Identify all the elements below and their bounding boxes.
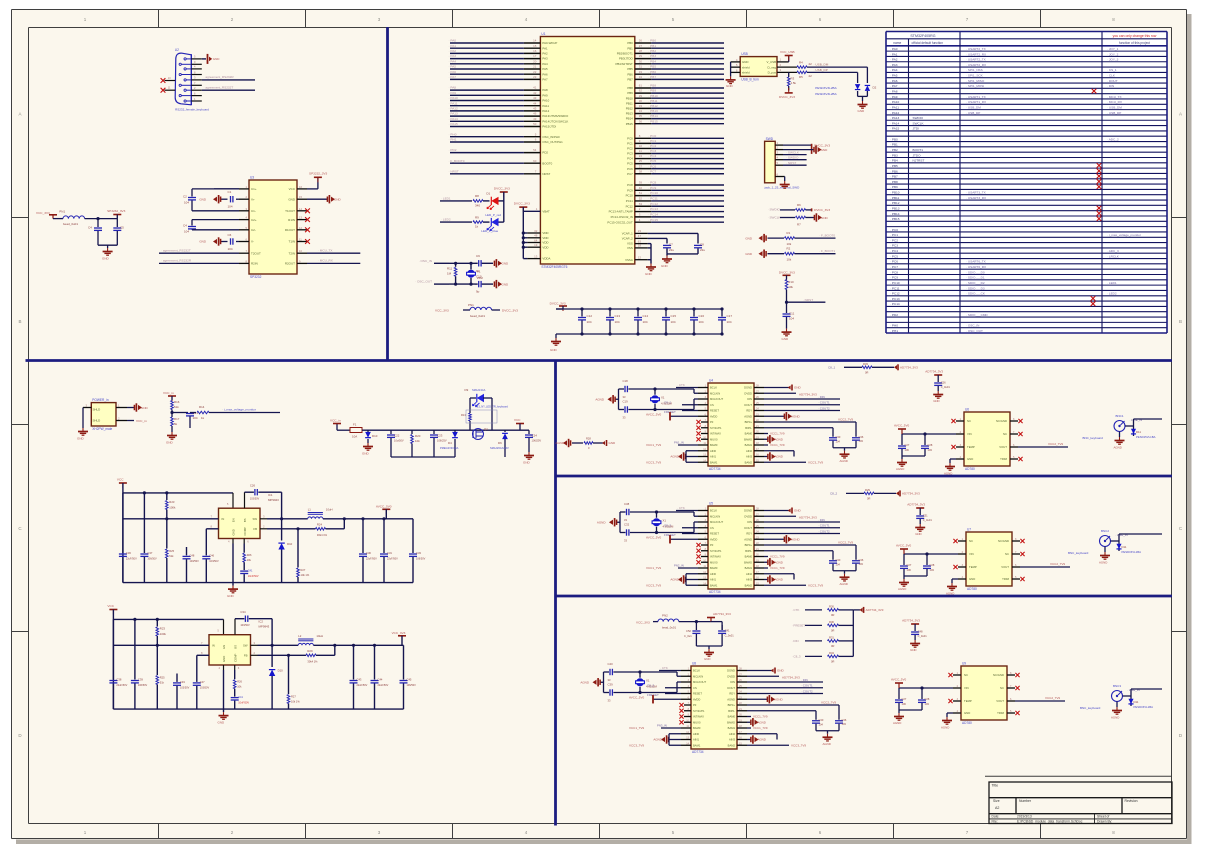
- svg-text:DVDD: DVDD: [744, 514, 752, 518]
- svg-text:46: 46: [533, 112, 537, 116]
- svg-text:· PA4: · PA4: [449, 59, 457, 63]
- svg-text:BAMG: BAMG: [744, 560, 752, 564]
- svg-text:U5: U5: [709, 502, 713, 506]
- svg-text:340: 340: [475, 204, 480, 208]
- svg-text:10k: 10k: [788, 285, 793, 289]
- svg-text:U4: U4: [709, 379, 713, 383]
- svg-text:C_0u01: C_0u01: [918, 634, 928, 638]
- svg-text:AVDD: AVDD: [710, 537, 717, 541]
- svg-text:· PA0: · PA0: [449, 39, 457, 43]
- svg-text:11: 11: [639, 149, 642, 153]
- svg-text:SMAJ13CA: SMAJ13CA: [472, 388, 486, 392]
- svg-text:0R: 0R: [831, 644, 834, 648]
- svg-text:· DIN: · DIN: [818, 395, 825, 399]
- svg-text:R1IN: R1IN: [288, 218, 295, 222]
- svg-text:26: 26: [639, 39, 643, 43]
- svg-text:1.5k: 1.5k: [791, 81, 797, 85]
- svg-text:· PC3: · PC3: [890, 244, 898, 248]
- svg-text:INT/MAX: INT/MAX: [693, 715, 704, 719]
- svg-text:10k 1%: 10k 1%: [291, 700, 300, 704]
- svg-text:AGND: AGND: [653, 738, 663, 742]
- svg-text:15: 15: [533, 44, 537, 48]
- svg-text:U9: U9: [962, 662, 966, 666]
- svg-text:C11: C11: [789, 311, 795, 315]
- svg-text:· USART2_TX: · USART2_TX: [966, 47, 986, 51]
- svg-text:AD7734_3V3: AD7734_3V3: [902, 619, 920, 623]
- svg-text:C15: C15: [671, 314, 677, 318]
- svg-text:D6: D6: [498, 441, 502, 445]
- svg-text:AGND: AGND: [580, 680, 590, 684]
- svg-text:SW: SW: [252, 517, 257, 521]
- svg-text:12: 12: [299, 226, 302, 230]
- svg-text:PC2: PC2: [627, 147, 633, 151]
- svg-text:16: 16: [533, 49, 537, 53]
- svg-text:· PD2: · PD2: [890, 313, 898, 317]
- svg-text:CS: CS: [710, 403, 714, 407]
- svg-text:16: 16: [299, 185, 302, 189]
- svg-text:DOUT: DOUT: [727, 686, 735, 690]
- svg-text:C36: C36: [126, 551, 131, 555]
- svg-text:C28: C28: [925, 697, 930, 701]
- svg-text:PB12: PB12: [626, 107, 633, 111]
- svg-text:· PB5: · PB5: [648, 65, 656, 69]
- svg-text:· LED1: · LED1: [1107, 281, 1117, 285]
- svg-text:GND: GND: [232, 529, 236, 535]
- svg-text:BIP0-: BIP0-: [745, 549, 752, 553]
- svg-text:C8: C8: [700, 242, 704, 246]
- svg-text:PN1_IN: PN1_IN: [674, 441, 684, 445]
- svg-text:MCLKIN: MCLKIN: [693, 674, 703, 678]
- svg-text:PD2: PD2: [542, 151, 548, 155]
- svg-text:VCC1_7V9: VCC1_7V9: [770, 443, 785, 447]
- svg-text:GND: GND: [821, 148, 829, 152]
- svg-text:X1: X1: [663, 518, 667, 522]
- svg-text:AGND: AGND: [840, 459, 848, 463]
- svg-text:· SPI1_SCK: · SPI1_SCK: [966, 74, 984, 78]
- svg-text:C14: C14: [643, 314, 649, 318]
- svg-text:· CTK: · CTK: [677, 383, 685, 387]
- svg-text:15: 15: [299, 195, 302, 199]
- svg-text:PN2: PN2: [662, 614, 668, 618]
- svg-text:C36: C36: [859, 435, 864, 439]
- svg-text:R3: R3: [791, 76, 795, 80]
- svg-text:· PB6: · PB6: [890, 169, 898, 173]
- svg-text:AIN2: AIN2: [729, 732, 735, 736]
- svg-text:· PA7: · PA7: [449, 75, 457, 79]
- svg-text:R9: R9: [475, 215, 479, 219]
- svg-text:· USART3_RX: · USART3_RX: [966, 196, 986, 200]
- svg-text:AGND: AGND: [555, 441, 565, 445]
- svg-text:AGND: AGND: [670, 578, 680, 582]
- svg-text:· PC4: · PC4: [890, 249, 898, 253]
- svg-text:NC/GND: NC/GND: [996, 419, 1007, 423]
- svg-text:RDY: RDY: [746, 409, 752, 413]
- svg-text:R27: R27: [291, 695, 296, 699]
- svg-text:· MCU_RX: · MCU_RX: [1107, 100, 1122, 104]
- svg-text:104: 104: [615, 320, 620, 324]
- svg-text:STM32F405RG: STM32F405RG: [910, 34, 935, 38]
- svg-text:21: 21: [533, 65, 537, 69]
- svg-text:VCC1_7V9: VCC1_7V9: [753, 726, 768, 730]
- svg-text:· PC5: · PC5: [648, 159, 656, 163]
- svg-text:VCC1_7V9: VCC1_7V9: [629, 726, 644, 730]
- svg-text:R16: R16: [174, 400, 180, 404]
- svg-text:AD7734: AD7734: [709, 467, 721, 471]
- svg-text:C31: C31: [387, 551, 392, 555]
- svg-text:30: 30: [639, 59, 643, 63]
- svg-text:106/25V: 106/25V: [437, 439, 447, 443]
- svg-text:· PC13: · PC13: [648, 207, 658, 211]
- svg-text:PC15-OSC32_OUT: PC15-OSC32_OUT: [607, 220, 633, 224]
- svg-text:JTDO: JTDO: [913, 153, 922, 157]
- svg-text:· SDIO___D2: · SDIO___D2: [966, 281, 985, 285]
- svg-text:· COUT2: · COUT2: [801, 689, 813, 693]
- svg-text:NC/GND: NC/GND: [998, 539, 1009, 543]
- svg-text:R11: R11: [447, 266, 452, 270]
- svg-text:BAM0: BAM0: [710, 566, 718, 570]
- svg-text:VCC3_7V9: VCC3_7V9: [646, 460, 661, 464]
- svg-text:AD7734_3V3: AD7734_3V3: [900, 366, 918, 370]
- svg-text:· PC8: · PC8: [648, 181, 656, 185]
- svg-text:AGND: AGND: [898, 587, 906, 591]
- svg-text:· PB5: · PB5: [890, 164, 898, 168]
- svg-text:AD7734: AD7734: [692, 750, 704, 754]
- svg-text:· PA11: · PA11: [449, 101, 458, 105]
- svg-text:AGND: AGND: [840, 582, 848, 586]
- svg-text:U7: U7: [967, 528, 971, 532]
- svg-text:0R: 0R: [831, 660, 834, 664]
- svg-text:INT/MAX: INT/MAX: [710, 555, 721, 559]
- svg-text:· PA2: · PA2: [449, 49, 457, 53]
- svg-text:PA13/JTMS/SWDIO: PA13/JTMS/SWDIO: [542, 114, 569, 118]
- svg-text:19: 19: [534, 243, 538, 247]
- svg-text:AIN1: AIN1: [710, 578, 716, 582]
- svg-text:R24: R24: [317, 522, 323, 526]
- svg-text:9p: 9p: [476, 269, 480, 273]
- svg-text:RDY: RDY: [746, 532, 752, 536]
- svg-text:D_pos: D_pos: [768, 71, 777, 75]
- svg-text:C48: C48: [190, 553, 195, 557]
- svg-text:C2: C2: [183, 195, 187, 199]
- svg-text:25: 25: [639, 159, 643, 163]
- svg-text:104: 104: [587, 320, 592, 324]
- svg-text:· C8_3: · C8_3: [792, 655, 801, 659]
- svg-text:C23: C23: [437, 434, 443, 438]
- svg-text:61: 61: [639, 84, 643, 88]
- svg-text:0R: 0R: [831, 629, 834, 633]
- svg-text:106/50V: 106/50V: [147, 558, 157, 561]
- svg-text:104: 104: [228, 205, 233, 209]
- svg-text:· PC3: · PC3: [648, 149, 656, 153]
- svg-text:· PA6: · PA6: [449, 70, 457, 74]
- svg-text:GND: GND: [502, 262, 510, 266]
- svg-text:104: 104: [184, 230, 189, 234]
- svg-text:DOUT: DOUT: [744, 526, 752, 530]
- svg-text:C22: C22: [394, 434, 400, 438]
- svg-text:DVCC_3V3: DVCC_3V3: [779, 270, 795, 274]
- svg-text:C28: C28: [930, 563, 935, 567]
- svg-text:MCLKOUT: MCLKOUT: [710, 397, 723, 401]
- svg-text:· PB14: · PB14: [648, 114, 658, 118]
- svg-text:C39: C39: [608, 683, 614, 687]
- svg-text:AD780: AD780: [965, 467, 975, 471]
- svg-text:44: 44: [533, 101, 537, 105]
- svg-text:· JOY_2: · JOY_2: [1107, 52, 1119, 56]
- svg-text:C24: C24: [532, 434, 538, 438]
- svg-text:· CTK: · CTK: [677, 506, 685, 510]
- svg-text:AVCC_5V0: AVCC_5V0: [629, 695, 644, 699]
- svg-text:VCC_in: VCC_in: [136, 419, 147, 423]
- svg-text:18: 18: [638, 244, 642, 248]
- svg-text:35: 35: [639, 114, 643, 118]
- svg-text:· PC9: · PC9: [648, 186, 656, 190]
- svg-text:· i_max_voltage_monitor: · i_max_voltage_monitor: [1107, 233, 1141, 237]
- svg-text:· COUT1: · COUT1: [818, 401, 830, 405]
- svg-text:COMP: COMP: [234, 653, 238, 662]
- svg-text:R29: R29: [307, 649, 313, 653]
- svg-text:U2: U2: [175, 48, 179, 52]
- svg-text:BNC_keyboard: BNC_keyboard: [1080, 706, 1101, 710]
- svg-text:BIP0-: BIP0-: [728, 709, 735, 713]
- svg-text:RS232_female_keyboard: RS232_female_keyboard: [175, 107, 209, 111]
- svg-text:VCC: VCC: [107, 604, 114, 608]
- svg-text:· PB3: · PB3: [890, 153, 898, 157]
- svg-text:· DIN: · DIN: [1107, 84, 1114, 88]
- svg-text:51k: 51k: [169, 554, 174, 558]
- svg-text:4.9152M: 4.9152M: [663, 524, 675, 528]
- svg-text:IC2: IC2: [259, 620, 264, 624]
- svg-text:C46: C46: [209, 553, 214, 557]
- svg-text:· USB_DP: · USB_DP: [814, 68, 828, 72]
- svg-text:MCLKIN: MCLKIN: [710, 514, 720, 518]
- svg-text:C6: C6: [228, 233, 232, 237]
- svg-text:PN2_IN: PN2_IN: [674, 564, 684, 568]
- svg-text:· PB10: · PB10: [648, 94, 658, 98]
- svg-text:104: 104: [836, 562, 841, 566]
- svg-text:22: 22: [809, 62, 813, 66]
- svg-text:VDDA: VDDA: [542, 257, 550, 261]
- svg-text:BAMG: BAMG: [727, 720, 735, 724]
- svg-text:GND: GND: [794, 509, 802, 513]
- svg-text:· PA3: · PA3: [449, 54, 457, 58]
- svg-text:C52: C52: [686, 629, 691, 633]
- svg-text:17: 17: [533, 54, 537, 58]
- svg-text:GND: GND: [915, 532, 921, 536]
- svg-text:C5: C5: [120, 226, 124, 230]
- svg-text:22uF/50V: 22uF/50V: [378, 684, 389, 687]
- svg-text:C44: C44: [378, 678, 383, 682]
- svg-text:AIN2: AIN2: [746, 449, 752, 453]
- svg-text:22uF/50V: 22uF/50V: [116, 684, 127, 687]
- svg-text:TEMP: TEMP: [967, 445, 975, 449]
- svg-text:C38: C38: [624, 502, 630, 506]
- svg-text:C10: C10: [476, 275, 482, 279]
- svg-text:PESD15VL1BA: PESD15VL1BA: [1136, 435, 1156, 439]
- svg-text:PB11: PB11: [626, 101, 633, 105]
- svg-text:EN: EN: [222, 645, 226, 649]
- svg-text:B: B: [1179, 319, 1182, 324]
- svg-text:AIN3: AIN3: [746, 578, 752, 582]
- svg-text:P0: P0: [693, 703, 697, 707]
- svg-text:AVCC_5V0: AVCC_5V0: [891, 678, 906, 682]
- svg-text:37: 37: [639, 164, 643, 168]
- svg-text:GND: GND: [102, 257, 110, 261]
- svg-text:BAM1: BAM1: [693, 743, 701, 747]
- svg-text:VCC3_7V9: VCC3_7V9: [808, 583, 823, 587]
- svg-text:PC1: PC1: [627, 141, 633, 145]
- svg-text:22uF/50V: 22uF/50V: [387, 558, 398, 561]
- svg-text:BAM2: BAM2: [745, 583, 753, 587]
- svg-text:Date:: Date:: [992, 815, 1000, 819]
- svg-text:1M: 1M: [447, 271, 452, 275]
- svg-text:PC12: PC12: [626, 204, 634, 208]
- svg-text:C7: C7: [669, 242, 673, 246]
- svg-text:IC1: IC1: [268, 493, 273, 497]
- svg-text:· MCU_RX: · MCU_RX: [318, 259, 333, 263]
- svg-text:27: 27: [639, 44, 643, 48]
- svg-text:NC: NC: [964, 673, 968, 677]
- svg-text:AVCC_5V0: AVCC_5V0: [646, 412, 661, 416]
- svg-text:104: 104: [836, 439, 841, 443]
- svg-text:GND: GND: [794, 386, 802, 390]
- svg-text:X1: X1: [661, 395, 665, 399]
- svg-text:GND: GND: [218, 721, 226, 725]
- svg-text:10k: 10k: [787, 258, 792, 262]
- svg-text:· PB2: · PB2: [890, 148, 898, 152]
- svg-text:· SWCLK: · SWCLK: [768, 216, 782, 220]
- svg-text:SHLD: SHLD: [93, 408, 101, 412]
- svg-text:VCC_3V3: VCC_3V3: [435, 309, 449, 313]
- svg-text:VCC3_7V9: VCC3_7V9: [808, 460, 823, 464]
- svg-text:· PA15: · PA15: [890, 127, 900, 131]
- svg-text:106/50V: 106/50V: [407, 684, 417, 687]
- svg-text:JTDI: JTDI: [913, 127, 920, 131]
- svg-text:22uF/50V: 22uF/50V: [366, 558, 377, 561]
- svg-text:BAM0: BAM0: [745, 432, 753, 436]
- svg-text:DVCC_3V3: DVCC_3V3: [550, 301, 566, 305]
- svg-text:· PC4: · PC4: [648, 154, 656, 158]
- svg-text:AIN0: AIN0: [710, 572, 716, 576]
- svg-text:VCAP_2: VCAP_2: [622, 237, 633, 241]
- svg-text:D2: D2: [873, 86, 877, 90]
- svg-text:AD7734_3V3: AD7734_3V3: [902, 492, 920, 496]
- svg-text:VIN: VIN: [964, 686, 969, 690]
- svg-text:· PA5: · PA5: [449, 65, 457, 69]
- svg-text:GND: GND: [609, 441, 617, 445]
- svg-text:106/50V: 106/50V: [416, 558, 426, 561]
- svg-text:DOUT: DOUT: [744, 403, 752, 407]
- svg-text:GND: GND: [199, 240, 207, 244]
- svg-text:· NRST: · NRST: [449, 169, 459, 173]
- svg-text:C2-: C2-: [251, 228, 256, 232]
- svg-text:103: 103: [859, 562, 864, 566]
- svg-text:PA11: PA11: [542, 104, 549, 108]
- svg-text:104: 104: [228, 247, 233, 251]
- svg-text:· USB_DM: · USB_DM: [1107, 105, 1122, 109]
- svg-text:· PC14: · PC14: [648, 212, 658, 216]
- svg-text:RDY: RDY: [729, 692, 735, 696]
- svg-text:VOUT: VOUT: [996, 699, 1004, 703]
- svg-text:PN1: PN1: [468, 303, 474, 307]
- svg-text:· PB11: · PB11: [890, 196, 900, 200]
- svg-text:BS: BS: [234, 645, 238, 649]
- svg-text:· DIN: · DIN: [792, 639, 799, 643]
- svg-text:VCC1_7V9: VCC1_7V9: [770, 566, 785, 570]
- svg-text:PA7: PA7: [542, 78, 548, 82]
- svg-text:47: 47: [638, 234, 642, 238]
- svg-text:· PB12: · PB12: [890, 201, 900, 205]
- svg-text:· PA12: · PA12: [890, 111, 900, 115]
- svg-text:NC: NC: [1005, 552, 1009, 556]
- svg-text:C30: C30: [836, 558, 841, 562]
- svg-text:103/50V: 103/50V: [200, 686, 210, 689]
- svg-text:C27: C27: [902, 697, 907, 701]
- svg-text:· PA1: · PA1: [449, 44, 457, 48]
- svg-text:· PC11: · PC11: [890, 286, 900, 290]
- svg-text:C18: C18: [623, 379, 629, 383]
- svg-text:C8_1: C8_1: [828, 366, 836, 370]
- svg-text:SYNC/P1: SYNC/P1: [693, 709, 705, 713]
- svg-text:RESET: RESET: [710, 409, 719, 413]
- svg-text:C47: C47: [200, 680, 205, 684]
- svg-text:GND: GND: [782, 337, 790, 341]
- svg-text:R29: R29: [865, 488, 870, 492]
- svg-text:· PC13: · PC13: [890, 297, 900, 301]
- svg-text:· SDIO___CMD: · SDIO___CMD: [966, 313, 988, 317]
- svg-text:· PB7: · PB7: [648, 75, 656, 79]
- svg-text:PA4: PA4: [542, 62, 548, 66]
- svg-text:· COUT1: · COUT1: [801, 684, 813, 688]
- svg-text:USB_B_fem: USB_B_fem: [741, 77, 759, 81]
- svg-text:C39: C39: [138, 678, 143, 682]
- svg-text:· PA6: · PA6: [890, 79, 898, 83]
- svg-text:OSC_OUT/PH1: OSC_OUT/PH1: [542, 140, 563, 144]
- svg-text:104: 104: [671, 320, 676, 324]
- svg-text:PB7: PB7: [627, 78, 633, 82]
- svg-text:D9: D9: [465, 388, 469, 392]
- svg-text:10: 10: [299, 249, 302, 253]
- svg-text:INT/MAX: INT/MAX: [710, 432, 721, 436]
- svg-text:104: 104: [819, 722, 824, 726]
- svg-text:· USART6_RX: · USART6_RX: [966, 265, 986, 269]
- svg-text:C48: C48: [918, 630, 923, 634]
- svg-text:BOOT0: BOOT0: [542, 161, 552, 165]
- svg-text:PB14: PB14: [626, 117, 633, 121]
- svg-text:VDD: VDD: [542, 231, 548, 235]
- svg-text:AGND: AGND: [758, 738, 766, 742]
- svg-text:PESD3V3L2BA: PESD3V3L2BA: [815, 86, 837, 90]
- svg-text:10k: 10k: [415, 439, 420, 443]
- svg-text:C_0u01: C_0u01: [923, 518, 933, 522]
- svg-text:100k: 100k: [169, 506, 176, 510]
- svg-text:· PA14: · PA14: [890, 121, 900, 125]
- svg-text:VCC2_7V9: VCC2_7V9: [821, 701, 836, 705]
- svg-text:104: 104: [643, 320, 648, 324]
- svg-text:BOOT1: BOOT1: [913, 148, 924, 152]
- svg-text:2019/3/13: 2019/3/13: [1017, 815, 1032, 819]
- svg-text:41: 41: [533, 86, 537, 90]
- svg-text:PC8: PC8: [627, 183, 633, 187]
- svg-text:PA8: PA8: [542, 88, 548, 92]
- svg-text:AGND: AGND: [744, 537, 752, 541]
- svg-text:PC6: PC6: [627, 167, 633, 171]
- svg-text:VCC_3V3: VCC_3V3: [636, 621, 650, 625]
- svg-text:PC13-ANTI_TAMP: PC13-ANTI_TAMP: [609, 210, 633, 214]
- svg-text:DVCC_3V3: DVCC_3V3: [514, 202, 530, 206]
- svg-text:· DIN: · DIN: [801, 678, 808, 682]
- svg-text:22u: 22u: [669, 248, 674, 252]
- svg-text:C49: C49: [180, 680, 185, 684]
